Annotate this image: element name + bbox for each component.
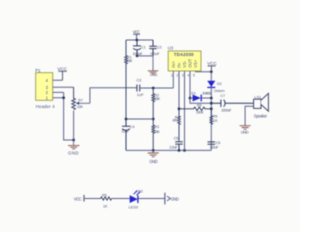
resistor R4 4.7K [172,109,180,142]
svg-text:GND: GND [241,130,249,135]
node C1 bottom junction [136,55,139,58]
resistor R3 100K [152,119,161,150]
svg-text:C3: C3 [137,79,142,83]
svg-text:150K: 150K [196,110,204,114]
LED D3 LED0 [129,189,143,209]
power VCC (header) [57,66,67,80]
wire pin2+pin1 to gnd [64,92,74,140]
node C4 junction [125,118,128,121]
svg-text:100K: 100K [154,130,161,134]
resistor R5 1K [101,193,112,208]
node feedback junction [210,107,213,110]
node rail C5 junction [178,149,181,152]
svg-text:TDA2030: TDA2030 [174,52,194,57]
ground GND (filter) [148,56,159,77]
port GND (led row) [165,193,179,205]
capacitor C6 220uF [208,141,221,149]
svg-text:1: 1 [171,74,173,78]
speaker LS1 [254,93,269,118]
node vcc rail junction [135,39,138,42]
svg-text:VCC: VCC [133,29,140,34]
ground GND (speaker) [240,126,251,135]
wire wiper to input row [90,88,137,104]
svg-text:C4: C4 [130,125,135,129]
node out row junction [210,102,213,105]
capacitor C3 1uF [137,79,145,98]
svg-text:2: 2 [177,74,179,78]
diode D2 Green [207,72,224,151]
svg-text:0.1uF: 0.1uF [150,51,160,56]
svg-text:VCC: VCC [57,66,67,71]
svg-text:220uF: 220uF [210,145,219,149]
svg-text:R3: R3 [154,125,159,129]
svg-text:1R: 1R [213,119,218,123]
svg-text:VCC: VCC [74,196,82,201]
node pin2 feedback junction [178,107,181,110]
svg-text:R8: R8 [197,103,202,107]
wire pin4 out [190,71,211,103]
svg-text:5: 5 [193,74,195,78]
wire led to gnd port [139,198,165,200]
svg-text:C1: C1 [141,46,146,50]
svg-text:1K: 1K [103,204,108,208]
svg-text:GND: GND [150,73,158,77]
svg-text:VCC: VCC [207,61,217,66]
wire pin5 to vcc [196,70,212,73]
svg-text:LED0: LED0 [129,205,139,209]
svg-text:R5: R5 [102,193,107,197]
svg-text:IN-: IN- [176,62,181,68]
node D1 cathode junction [210,97,213,100]
wire pin3 [184,71,186,150]
wire top rail [126,39,153,41]
port VCC (led row) [74,195,101,202]
wire r5 to led [112,198,130,200]
svg-text:D2: D2 [217,82,222,86]
node bias mid junction [152,118,155,121]
svg-text:IN+: IN+ [171,61,176,68]
power VCC (amp) [207,61,217,72]
svg-text:22uF: 22uF [122,130,130,134]
svg-text:100K: 100K [126,59,133,63]
potentiometer R7 10K [72,87,90,109]
op-amp U3 TDA2030 [168,46,201,78]
svg-text:P1: P1 [35,68,41,73]
svg-text:U3: U3 [168,46,174,51]
capacitor C2 0.1uF [149,40,161,56]
svg-text:1uF: 1uF [137,92,144,97]
resistor R1 100K [125,40,133,119]
node rail gnd junction [152,149,155,152]
svg-text:GND: GND [171,196,179,201]
svg-text:VS+: VS+ [193,59,198,68]
node gnd junction under R7 [72,139,75,142]
wire pin2 [178,71,180,109]
svg-text:D3: D3 [138,189,143,193]
wire caps bottom [137,55,153,57]
svg-text:C2: C2 [157,46,162,50]
node pin1 junction [62,96,65,99]
svg-text:C7: C7 [220,94,225,98]
power VCC (filter) [133,29,140,40]
svg-text:2200uF: 2200uF [221,108,232,112]
resistor R6 1R [210,109,218,124]
svg-text:3: 3 [182,74,184,78]
svg-text:Header 4: Header 4 [36,104,56,109]
svg-text:4: 4 [188,74,190,78]
ground GND (rail) [148,150,159,164]
svg-text:100K: 100K [154,97,161,101]
svg-text:GND: GND [149,159,157,164]
svg-text:2.2uF: 2.2uF [169,144,178,149]
svg-text:C6: C6 [216,141,221,145]
diode D1 1N4001 [190,91,211,101]
connector P1 Header 4 [35,68,73,109]
svg-text:4.7K: 4.7K [172,119,178,123]
svg-text:1N4001: 1N4001 [202,91,211,95]
wire R7 bottom to gnd [73,111,75,140]
resistor R8 150K feedback [179,103,211,114]
capacitor C7 2200uF [211,94,253,112]
node out junction [189,97,192,100]
svg-text:GND: GND [68,151,79,156]
node rail pin3 junction [183,149,186,152]
wire input node to pin1 [140,87,174,89]
svg-text:C5: C5 [174,136,179,140]
svg-text:D1: D1 [191,91,196,95]
wire speaker return [245,106,254,125]
capacitor C1 100uF [133,40,146,56]
wire bias cross [126,118,153,120]
ground GND (header) [68,140,80,156]
node vcc amp junction [210,70,213,73]
capacitor C5 2.2uF [169,136,182,150]
svg-text:10K: 10K [77,105,84,109]
node input junction [152,87,155,90]
capacitor C4 22uF [122,119,135,150]
resistor R2 100K [152,88,161,119]
svg-text:VS-: VS- [182,60,187,68]
svg-text:Speaker: Speaker [254,113,268,118]
wire bottom rail [126,149,211,151]
svg-text:OUT: OUT [187,58,192,67]
svg-text:LS1: LS1 [254,96,261,100]
wire pin1 [172,71,174,88]
svg-text:R7: R7 [78,98,83,102]
svg-text:Green: Green [214,88,225,93]
